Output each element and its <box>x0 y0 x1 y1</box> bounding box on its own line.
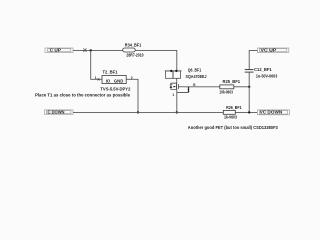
junction dot Q6 drain right <box>175 70 177 72</box>
svg-text:R34_BF1: R34_BF1 <box>125 42 142 47</box>
junction node T2/C DOWN rail <box>137 111 139 113</box>
net label attach cross on C UP wire <box>83 48 86 52</box>
wire R25 to VC DOWN net <box>234 86 249 88</box>
svg-text:Q6_BF1: Q6_BF1 <box>188 67 202 72</box>
resistor R26 <box>223 110 235 114</box>
T2 pin 1 cross mark <box>98 78 100 80</box>
svg-text:T2_BF1: T2_BF1 <box>103 70 119 75</box>
junction dot Q6 drain left <box>170 70 172 72</box>
Q6 source pin stack stub <box>177 87 189 93</box>
svg-text:G: G <box>193 83 196 87</box>
Q6 pin stack dot 1 <box>188 87 190 89</box>
Q6 pin stack dot 2 <box>188 89 190 91</box>
svg-text:VC UP: VC UP <box>261 48 277 53</box>
svg-text:C12_BF1: C12_BF1 <box>254 67 272 72</box>
wire VC UP port to C12 <box>249 50 257 69</box>
svg-text:Another good FET (but too smal: Another good FET (but too small) CSD1338… <box>188 125 279 130</box>
junction node vertical net/VC DOWN rail <box>248 111 250 113</box>
junction node C UP <box>90 49 92 51</box>
port VC DOWN <box>257 110 289 115</box>
svg-text:10k-0603: 10k-0603 <box>219 89 233 94</box>
TVS diode T2 <box>102 76 126 84</box>
wire Q6 gate to R25 <box>183 86 220 88</box>
wire junction to T2 pin 1 <box>91 50 102 79</box>
wire T2 pin 2 to bottom rail <box>126 79 138 112</box>
port C UP <box>45 48 73 53</box>
wire C12 to bottom rail <box>248 72 250 112</box>
svg-text:1: 1 <box>172 93 174 97</box>
port C DOWN <box>45 110 74 115</box>
junction node R25/vertical net <box>248 86 250 88</box>
svg-text:1k-0603: 1k-0603 <box>224 114 237 119</box>
svg-text:1: 1 <box>95 76 97 80</box>
svg-text:VC DOWN: VC DOWN <box>260 110 283 115</box>
capacitor C12 <box>245 70 254 73</box>
wire R26 to VC DOWN port <box>235 111 257 113</box>
resistor R25 <box>220 85 234 89</box>
wire R34 to Q6 drain <box>135 50 177 71</box>
svg-text:SQA470EEJ: SQA470EEJ <box>186 74 208 79</box>
svg-text:R26_BF1: R26_BF1 <box>226 105 242 110</box>
svg-text:R25_BF1: R25_BF1 <box>223 79 241 84</box>
svg-text:Place T1 as close to the conne: Place T1 as close to the connector as po… <box>35 93 131 98</box>
Q6 body diode and arrow <box>170 85 177 88</box>
svg-text:1u-50V-0603: 1u-50V-0603 <box>256 74 278 79</box>
svg-text:C UP: C UP <box>50 48 61 53</box>
wire Q6 source to bottom rail <box>176 89 178 112</box>
resistor R34 <box>123 48 136 52</box>
Q6 pin stack dot 3 <box>188 91 190 93</box>
svg-text:C DOWN: C DOWN <box>48 110 65 115</box>
junction node Q6 source/C DOWN rail <box>176 111 178 113</box>
svg-text:28R7-2010: 28R7-2010 <box>126 53 144 58</box>
svg-text:TVS-5.5V-DPY2: TVS-5.5V-DPY2 <box>100 86 131 91</box>
svg-text:GND: GND <box>114 79 123 84</box>
transistor Q6 channel and gate <box>171 78 183 89</box>
wire C DOWN rail <box>73 111 223 113</box>
wire C UP port to junction <box>73 49 123 51</box>
port VC UP <box>257 48 288 53</box>
transistor Q6 drain pin boxes <box>165 71 182 78</box>
svg-text:IO: IO <box>106 79 111 84</box>
